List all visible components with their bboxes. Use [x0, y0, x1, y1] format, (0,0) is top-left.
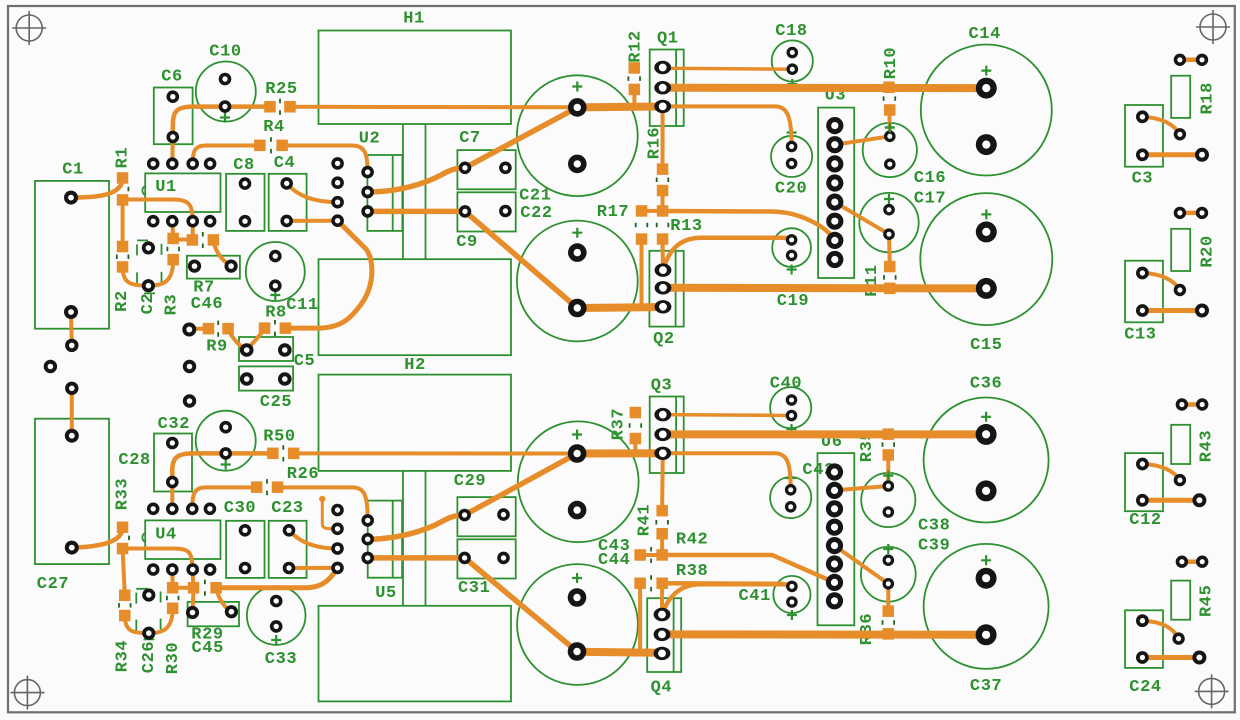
resistor R2 [113, 254, 132, 311]
svg-text:R4: R4 [263, 118, 285, 137]
resistor R16 pads [657, 163, 669, 196]
wire [465, 107, 577, 167]
wire [887, 234, 892, 266]
svg-text:C5: C5 [294, 352, 316, 371]
wire [662, 630, 986, 638]
resistor R2 pads [117, 241, 129, 273]
capacitor C37 [924, 544, 1049, 696]
svg-text:C31: C31 [458, 579, 490, 598]
capacitor C29 [454, 472, 516, 536]
capacitor C33 [247, 586, 306, 669]
capacitor C3 pads [1136, 110, 1149, 161]
resistor R11 [863, 264, 896, 296]
svg-text:R34: R34 [114, 640, 133, 672]
resistor R26 pads [251, 481, 283, 493]
wire [290, 105, 577, 110]
wire [368, 168, 465, 192]
svg-text:C39: C39 [918, 537, 950, 556]
node pad right of C12 [1192, 493, 1206, 507]
capacitor C25 pads [240, 372, 292, 386]
svg-text:C12: C12 [1129, 511, 1161, 530]
svg-text:C15: C15 [970, 336, 1002, 355]
resistor R18 pads [1174, 54, 1186, 141]
IC U5 pads [361, 514, 374, 564]
wire [149, 608, 173, 633]
resistor R17 pads [636, 205, 648, 245]
transistor Q1 [650, 30, 684, 127]
resistor R25 [265, 80, 297, 115]
wire [282, 146, 368, 173]
svg-text:C46: C46 [191, 295, 223, 314]
wire [1142, 273, 1180, 290]
resistor R42 pads [634, 549, 668, 561]
wire [192, 487, 256, 508]
wire [577, 307, 663, 308]
svg-text:R13: R13 [670, 217, 702, 236]
svg-text:C20: C20 [775, 180, 807, 199]
capacitor C16 pads [884, 131, 896, 171]
capacitor C19 pads [786, 234, 798, 261]
resistor R20 pads [1174, 207, 1186, 296]
wire [662, 581, 782, 586]
capacitor C18 pads [787, 47, 799, 75]
resistor R7 [193, 232, 215, 298]
svg-text:R45: R45 [1197, 585, 1216, 617]
via near R9 [182, 323, 196, 337]
wire [170, 482, 174, 509]
wire [170, 137, 175, 164]
svg-text:C14: C14 [968, 25, 1000, 44]
wire [170, 221, 175, 238]
capacitor C7 pads [459, 162, 512, 175]
capacitor C43 body [518, 421, 639, 542]
resistor R4 [263, 118, 285, 153]
node pads near R20 [1196, 207, 1208, 219]
svg-text:R43: R43 [1197, 430, 1216, 462]
node pad right of C13 [1195, 304, 1209, 318]
capacitor C31 pads [458, 552, 510, 565]
svg-text:C40: C40 [770, 374, 802, 393]
transistor Q1 pads [654, 61, 671, 113]
resistor R9 pads [203, 323, 234, 335]
capacitor C3 [1125, 105, 1163, 189]
wire [660, 453, 665, 510]
capacitor C22 body [517, 221, 638, 342]
wire [638, 583, 642, 653]
capacitor C27 pads [65, 429, 79, 555]
wire [663, 284, 986, 293]
svg-text:R12: R12 [626, 30, 645, 62]
svg-text:C27: C27 [37, 575, 69, 594]
node pads near R45 [1196, 556, 1208, 568]
wire [577, 449, 663, 457]
resistor R43 [1171, 425, 1216, 464]
wire [173, 586, 194, 590]
wire [213, 241, 231, 266]
wire [1142, 464, 1180, 480]
capacitor C27 [35, 419, 109, 594]
capacitor C10 [196, 43, 256, 123]
capacitor C1 [35, 161, 109, 329]
wire [663, 413, 792, 417]
capacitor C13 [1124, 261, 1163, 345]
capacitor C5 pads [240, 343, 292, 357]
svg-text:H2: H2 [404, 356, 426, 375]
svg-text:R36: R36 [858, 613, 877, 645]
capacitor C22 pads [568, 243, 587, 317]
label C22 [520, 204, 552, 223]
wire [216, 589, 231, 612]
wire [123, 267, 149, 286]
wire [661, 107, 665, 170]
capacitor C39 [861, 537, 951, 602]
wire [72, 527, 123, 547]
svg-text:R8: R8 [265, 304, 287, 323]
resistor R3 [163, 247, 182, 316]
IC U6 [818, 433, 855, 625]
wire [633, 439, 637, 454]
capacitor C41 pads [786, 581, 798, 608]
wire [662, 555, 834, 582]
svg-text:H1: H1 [403, 10, 425, 29]
capacitor C24 pads [1136, 614, 1149, 664]
svg-text:R18: R18 [1199, 82, 1218, 114]
capacitor C21 body [517, 75, 638, 196]
wire [71, 178, 123, 198]
capacitor C8 [226, 156, 264, 231]
transistor Q2 [649, 251, 683, 349]
wire [1142, 308, 1202, 313]
capacitor C6 [154, 68, 193, 145]
wire [660, 534, 664, 555]
wire [228, 330, 247, 351]
wire [123, 200, 193, 222]
capacitor C28 [118, 411, 255, 471]
svg-text:C30: C30 [224, 499, 256, 518]
svg-text:Q3: Q3 [651, 377, 673, 396]
fiducial top-right [1196, 10, 1230, 44]
svg-text:R26: R26 [287, 465, 319, 484]
resistor R50 pads [267, 448, 299, 460]
resistor R12 pads [629, 62, 641, 95]
resistor R29 pads [188, 582, 222, 594]
resistor R16 [646, 127, 669, 182]
capacitor C10 pads [219, 73, 232, 113]
svg-text:C13: C13 [1124, 326, 1156, 345]
wire [287, 219, 338, 223]
resistor R33 pads [117, 522, 129, 555]
wire [662, 584, 792, 614]
resistor R26 [267, 465, 319, 495]
node pads near R43 [1196, 398, 1208, 410]
svg-text:C2: C2 [139, 293, 158, 315]
wire [1182, 559, 1202, 564]
capacitor C29 pads [458, 508, 510, 521]
resistor R34 [114, 603, 133, 672]
svg-text:C29: C29 [454, 472, 486, 491]
IC U1 pads [147, 157, 217, 227]
resistor R29 [191, 580, 223, 645]
wire [170, 570, 174, 588]
capacitor C25 [239, 366, 293, 412]
wire [191, 221, 195, 240]
wire [121, 200, 125, 247]
wire [123, 549, 193, 570]
svg-text:C6: C6 [161, 68, 183, 87]
wire [125, 616, 149, 634]
capacitor C17 pads [883, 204, 895, 240]
resistor R3 pads [167, 233, 179, 266]
capacitor C33 pads [270, 595, 283, 633]
svg-text:C45: C45 [191, 639, 223, 658]
capacitor C5 [239, 337, 315, 371]
capacitor C2 [137, 240, 162, 314]
wire [886, 584, 890, 611]
svg-text:U5: U5 [375, 584, 397, 603]
wire [577, 103, 662, 112]
resistor R34 pads [119, 590, 131, 622]
svg-text:R50: R50 [263, 428, 295, 447]
wire [368, 209, 465, 215]
resistor R43 pads [1174, 398, 1188, 486]
transistor Q4 [647, 598, 681, 697]
svg-text:R42: R42 [676, 531, 708, 550]
resistor R9 [206, 321, 228, 357]
svg-text:C36: C36 [970, 374, 1002, 393]
wire [835, 202, 889, 234]
wire [1142, 621, 1178, 639]
IC U5 [368, 501, 402, 603]
capacitor C19 [772, 228, 811, 311]
wire [1142, 152, 1202, 157]
capacitor C13 pads [1136, 267, 1149, 317]
capacitor C40 pads [786, 394, 798, 421]
capacitor C39 pads [883, 554, 895, 589]
wire [368, 555, 465, 561]
capacitor C16 [863, 123, 947, 189]
wire [193, 146, 260, 164]
fiducial top-left [12, 11, 46, 45]
svg-text:C33: C33 [265, 650, 297, 669]
capacitor C12 [1125, 453, 1163, 530]
capacitor C37 pads [976, 568, 997, 646]
wire [663, 106, 792, 146]
resistor R13 [657, 217, 703, 236]
capacitor C24 [1125, 610, 1163, 697]
capacitor C32 [154, 415, 192, 492]
capacitor C2 pads [142, 241, 155, 292]
svg-text:C22: C22 [520, 204, 552, 223]
capacitor C46 [187, 256, 240, 314]
transistor Q4 pads [654, 608, 671, 660]
wire [640, 239, 644, 308]
resistor R37 [609, 408, 641, 440]
capacitor C44 pads [568, 588, 587, 661]
node pad right of C24 [1192, 651, 1206, 665]
capacitor C36 [924, 374, 1049, 522]
wire [1182, 402, 1202, 407]
resistor R17 [597, 203, 648, 227]
capacitor C14 [921, 25, 1052, 175]
svg-text:C41: C41 [738, 587, 770, 606]
svg-text:C8: C8 [233, 156, 255, 175]
capacitor C44 body [517, 564, 638, 685]
capacitor C31 [457, 539, 515, 598]
capacitor C43 pads [568, 444, 587, 519]
wire [886, 455, 890, 486]
capacitor C8 pads [239, 177, 252, 227]
resistor R8 pads [259, 322, 291, 334]
resistor R35 pads [883, 428, 895, 460]
wire [148, 260, 173, 286]
resistor R41 pads [656, 505, 668, 540]
wire [663, 453, 791, 490]
wire [661, 191, 665, 211]
svg-text:U4: U4 [155, 526, 177, 545]
svg-text:C21: C21 [519, 187, 551, 206]
svg-text:C17: C17 [914, 190, 946, 209]
svg-text:C10: C10 [209, 43, 241, 62]
via cluster left [44, 339, 79, 395]
resistor R10 pads [883, 82, 895, 116]
wire [278, 487, 368, 520]
wire [123, 549, 125, 596]
label C21 [519, 187, 551, 206]
svg-text:R10: R10 [882, 47, 901, 79]
svg-text:C23: C23 [271, 499, 303, 518]
svg-text:R41: R41 [635, 504, 654, 536]
wire [660, 583, 664, 614]
svg-text:C9: C9 [456, 233, 478, 252]
svg-text:R3: R3 [163, 294, 182, 316]
capacitor C38 polarity mark [883, 471, 893, 481]
IC U4 [142, 520, 220, 559]
wire [577, 652, 662, 653]
label C44 [598, 551, 630, 570]
capacitor C9 [456, 192, 516, 252]
node pads near R18 [1196, 54, 1208, 66]
svg-text:Q2: Q2 [653, 330, 675, 349]
capacitor C42 pads [785, 484, 797, 513]
wire [663, 68, 793, 69]
wire [663, 430, 986, 438]
wire [465, 558, 577, 652]
capacitor C6 pads [167, 90, 180, 143]
svg-text:R33: R33 [114, 478, 133, 510]
wire [192, 570, 193, 588]
test point [319, 496, 325, 502]
wire [294, 451, 577, 455]
capacitor C12 pads [1136, 458, 1149, 507]
resistor R25 pads [264, 101, 296, 113]
capacitor C11 pads [269, 250, 282, 292]
capacitor C30 pads [239, 524, 252, 574]
wire [368, 515, 465, 539]
IC U3 pads [826, 117, 843, 268]
wire [663, 84, 987, 92]
capacitor C20 [771, 128, 812, 199]
capacitor C40 [770, 374, 812, 434]
capacitor C7 [457, 129, 515, 189]
resistor R8 [265, 304, 287, 337]
capacitor C18 [772, 22, 813, 89]
wire [642, 209, 663, 213]
resistor R11 pads [884, 261, 896, 294]
svg-text:C16: C16 [914, 169, 946, 188]
capacitor C17 [859, 190, 946, 253]
capacitor C9 pads [459, 205, 512, 218]
capacitor C38 pads [883, 480, 895, 518]
capacitor C42 [770, 461, 835, 518]
svg-text:C26: C26 [140, 641, 159, 673]
svg-text:C1: C1 [62, 161, 84, 180]
node pads near U5 [331, 504, 344, 575]
capacitor C23 [269, 499, 307, 578]
wire [287, 183, 338, 202]
wire [663, 238, 792, 270]
resistor R37 pads [630, 407, 642, 445]
capacitor C26 pads [142, 588, 155, 639]
resistor R50 [263, 428, 295, 462]
wire [1142, 655, 1199, 660]
capacitor C46 pads [188, 260, 238, 273]
capacitor C21 pads [568, 98, 587, 173]
resistor R36 [858, 613, 894, 645]
capacitor C41 [738, 576, 810, 620]
wire [285, 221, 372, 328]
resistor R45 pads [1172, 556, 1188, 645]
wire [216, 568, 337, 588]
wire [193, 588, 194, 613]
resistor R12 [626, 30, 645, 81]
svg-text:C7: C7 [459, 129, 481, 148]
transistor Q3 pads [654, 408, 671, 460]
capacitor C20 pads [786, 141, 798, 170]
resistor R38 [651, 562, 708, 592]
capacitor C15 pads [976, 221, 997, 299]
heatsink H2 [319, 356, 512, 702]
node pads near U2 [331, 157, 344, 227]
svg-text:C28: C28 [118, 451, 150, 470]
capacitor C4 pads [280, 177, 293, 227]
wire [69, 312, 74, 345]
resistor R33 [114, 478, 133, 540]
resistor R1 [114, 147, 133, 192]
svg-text:C37: C37 [970, 677, 1002, 696]
resistor R20 [1171, 229, 1218, 271]
node pad right of C3 [1195, 148, 1209, 162]
svg-text:Q1: Q1 [657, 30, 679, 49]
wire [1142, 498, 1199, 503]
wire [1180, 211, 1202, 216]
capacitor C15 [920, 193, 1052, 355]
resistor R36 pads [883, 605, 895, 639]
svg-text:C3: C3 [1132, 170, 1154, 189]
wire [835, 546, 889, 584]
capacitor C14 pads [976, 78, 997, 156]
resistor R35 [858, 430, 894, 462]
IC U1 [142, 173, 220, 212]
wire [1180, 58, 1202, 63]
wire [632, 89, 636, 106]
wire [189, 327, 209, 331]
IC U2 pads [361, 166, 374, 218]
transistor Q2 pads [655, 263, 672, 313]
wire [226, 451, 273, 456]
svg-text:U2: U2 [359, 130, 381, 149]
capacitor C45 pads [186, 605, 238, 619]
wire [640, 553, 662, 557]
